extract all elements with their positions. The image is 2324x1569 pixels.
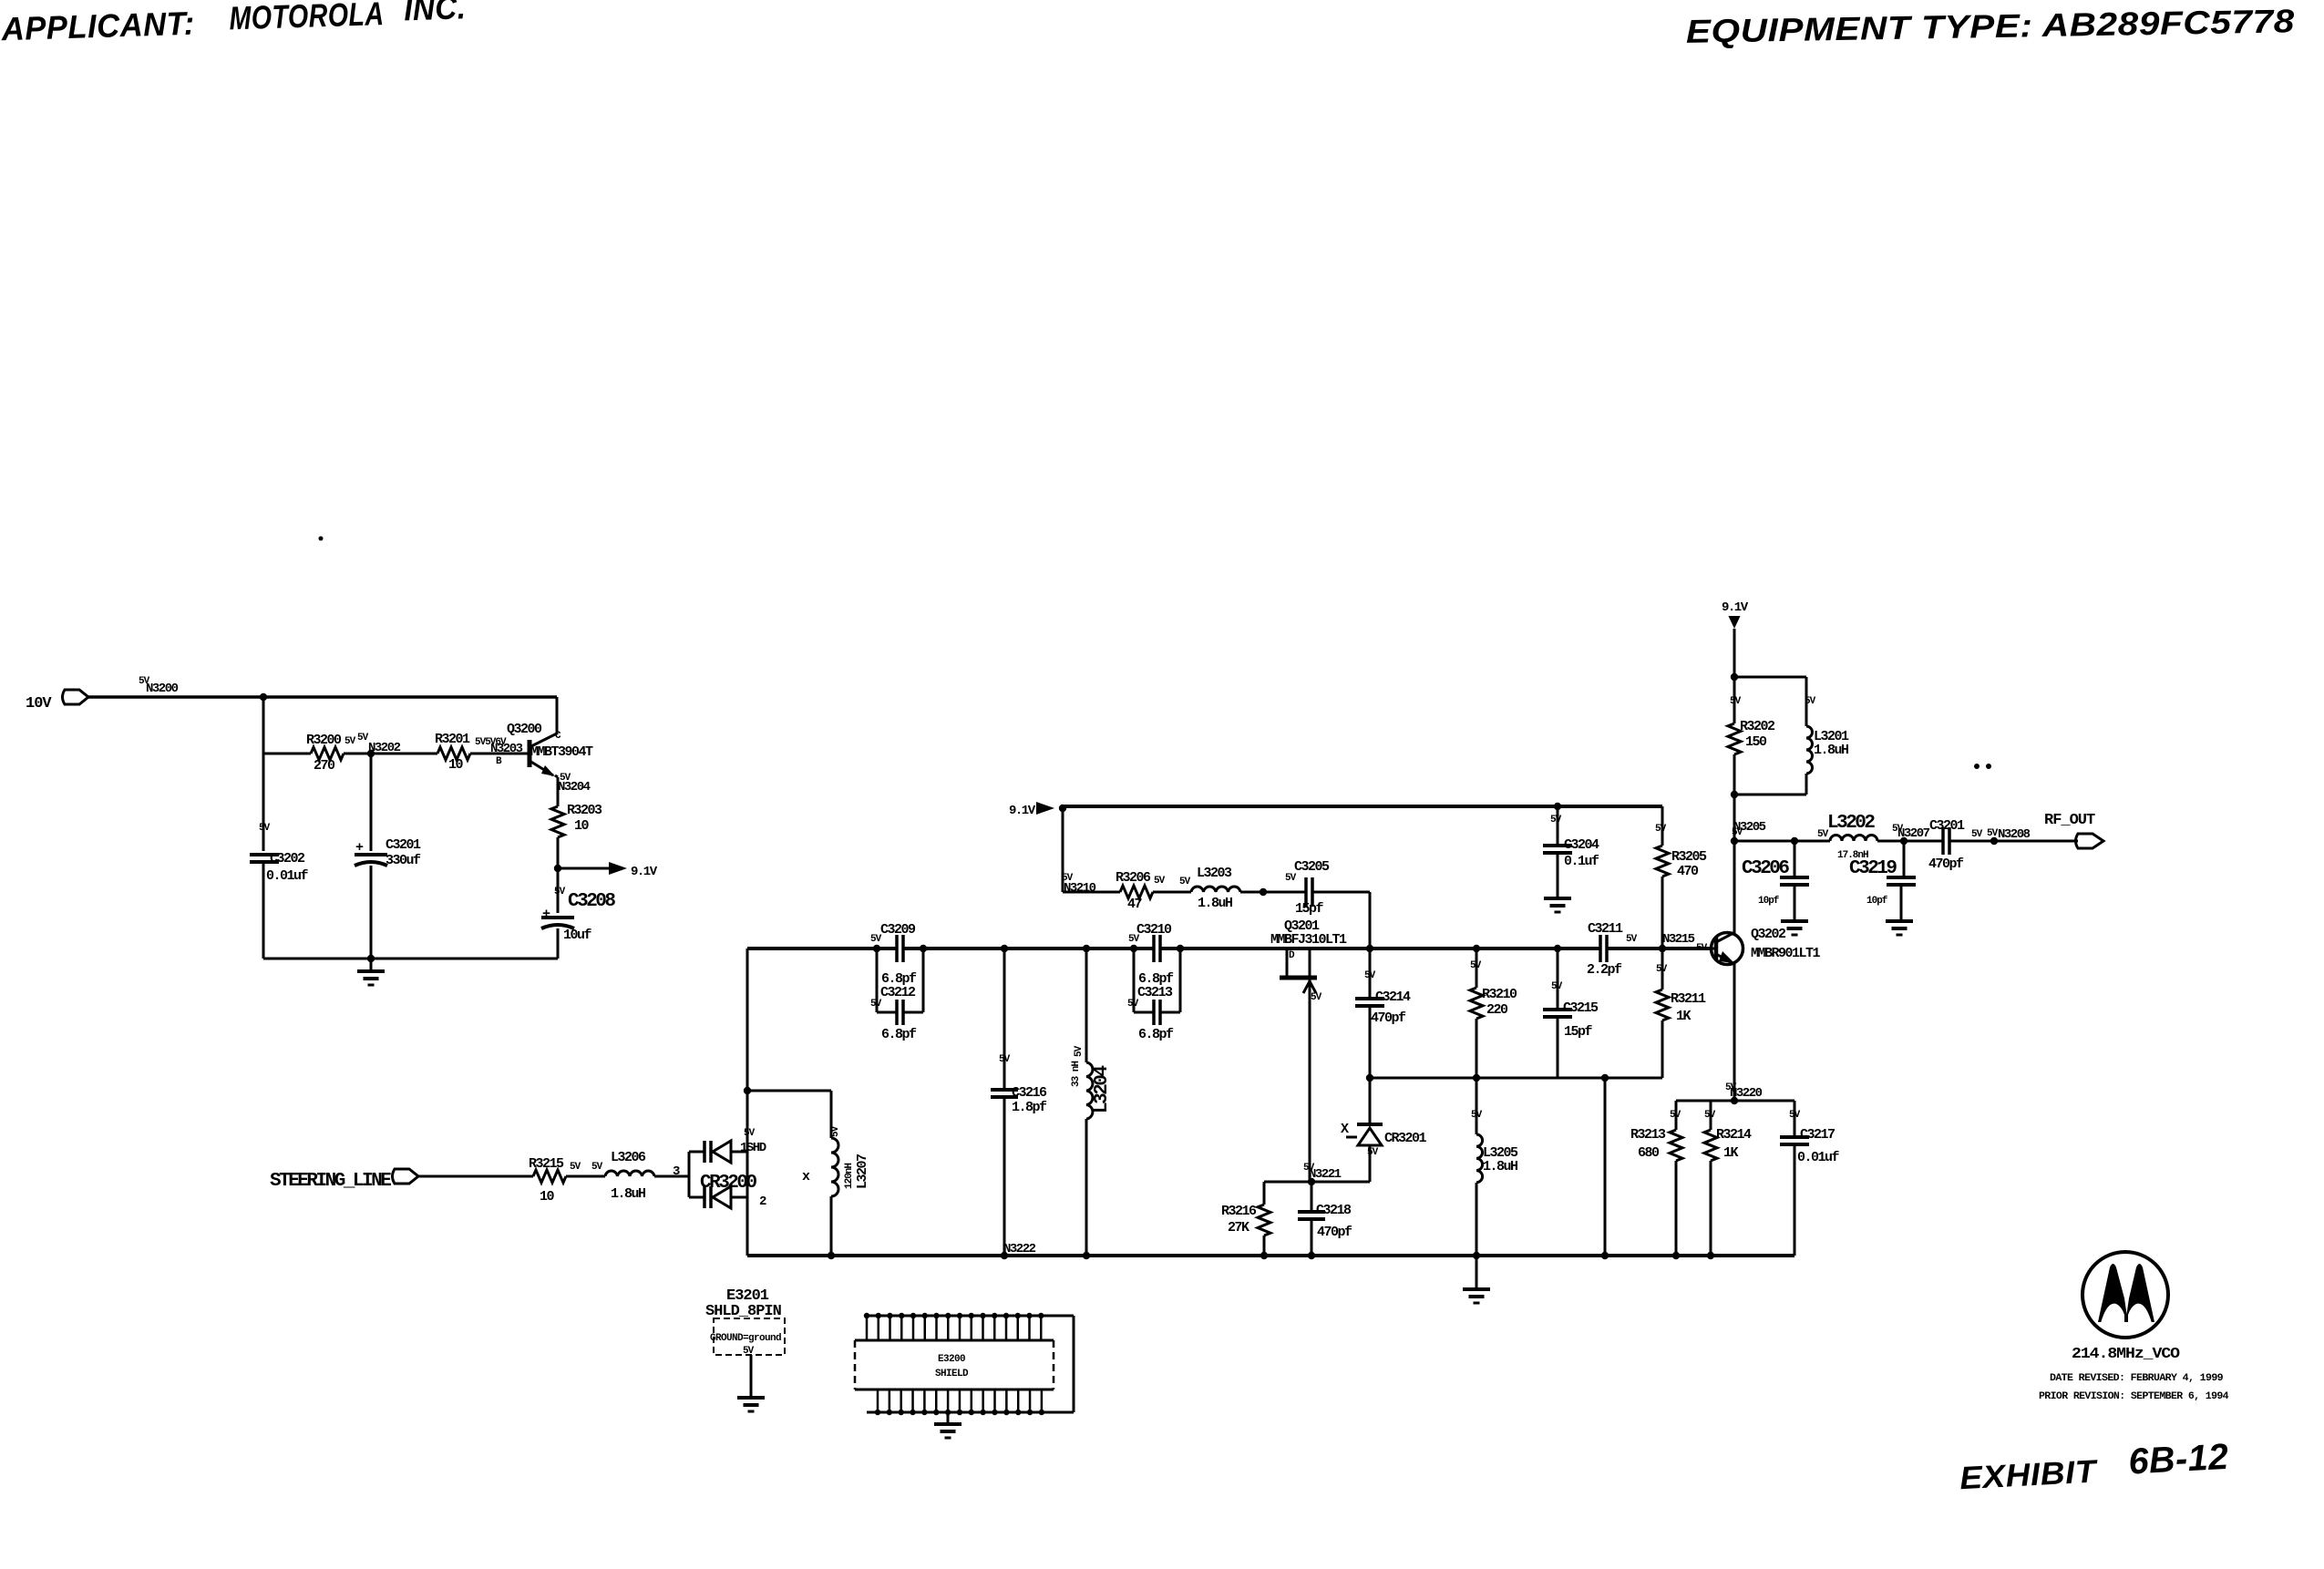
svg-text:5V: 5V [1303,1163,1315,1174]
supply 9.1V label top right [1722,600,1749,615]
svg-text:470pf: 470pf [1317,1225,1352,1240]
svg-text:5V: 5V [357,733,369,743]
inductor L3206 [605,1150,654,1202]
svg-text:5V: 5V [870,999,882,1010]
resistor R3210 220 [1470,949,1517,1078]
svg-text:L3203: L3203 [1197,866,1232,881]
component E3200 SHIELD [855,1313,1074,1415]
net N3220 label [1725,1082,1763,1101]
inductor L3204 33nH [1071,949,1113,1256]
svg-text:5V: 5V [1655,824,1667,835]
svg-text:10V: 10V [26,695,52,713]
ground C3219 [1886,921,1913,935]
arrow 9.1V supply down [1729,616,1741,629]
svg-text:R3210: R3210 [1482,987,1517,1002]
inductor L3202 [1827,813,1877,861]
handwritten equipment type header [1686,2,2296,50]
wire steering 1 [418,1175,533,1178]
svg-text:6B-12: 6B-12 [2127,1437,2229,1482]
svg-text:1.8uH: 1.8uH [1198,896,1232,911]
node bus right loop C3213 [1177,945,1184,952]
varactor CR3200 top half [689,1141,747,1163]
capacitor C3201 470pf series [1928,818,1983,872]
svg-text:MMBFJ310LT1: MMBFJ310LT1 [1270,932,1347,948]
output terminal RF_OUT [2044,812,2103,848]
svg-text:0.01uf: 0.01uf [1797,1150,1840,1165]
wire CR3200 to ground rail [746,1152,749,1256]
svg-text:C3211: C3211 [1588,921,1623,937]
ground E3200 [934,1412,961,1438]
svg-text:C3201: C3201 [386,837,421,853]
wire C3208 to bottom [557,928,560,959]
svg-text:1.8uH: 1.8uH [1814,743,1848,758]
svg-text:L3204: L3204 [1092,1066,1113,1113]
svg-text:9.1V: 9.1V [631,865,658,879]
svg-text:N3207: N3207 [1897,826,1930,841]
resistor R3201 [435,732,470,773]
svg-text:470: 470 [1677,864,1699,879]
svg-text:10: 10 [574,818,590,834]
svg-text:5V: 5V [1285,873,1297,884]
svg-text:R3213: R3213 [1630,1127,1666,1143]
wire top rail [1063,805,1662,808]
wire N3220 top line [1676,1100,1794,1102]
svg-text:5V: 5V [1987,828,1999,839]
handwritten applicant header [0,0,467,47]
wire N3202 vertical upper [370,754,373,851]
svg-text:5V: 5V [1656,964,1668,975]
svg-text:1.8uH: 1.8uH [1483,1159,1517,1174]
svg-text:9.1V: 9.1V [1009,804,1036,818]
resistor R3216 27K [1221,1182,1270,1256]
wire R3200 to N3202 [344,753,371,755]
svg-text:R3216: R3216 [1221,1204,1257,1219]
svg-text:1SHD: 1SHD [740,1141,766,1155]
capacitor C3214 470pf [1355,949,1411,1078]
svg-text:R3206: R3206 [1116,870,1151,886]
svg-text:5V: 5V [1704,1110,1716,1121]
svg-text:5V: 5V [1179,877,1191,887]
svg-text:EXHIBIT: EXHIBIT [1959,1453,2099,1496]
handwritten exhibit number [1959,1437,2230,1496]
inductor L3207 120nH [802,1091,870,1256]
capacitor C3206 10pf [1742,841,1809,921]
net N3203 label [475,737,523,767]
svg-text:R3202: R3202 [1740,719,1775,734]
svg-text:5V: 5V [870,934,882,945]
node rail L3204 [1083,1252,1090,1259]
node bus R3210 [1473,945,1480,952]
node rail R3214 [1707,1252,1714,1259]
svg-text:6.8pf: 6.8pf [1138,1027,1174,1042]
wire to 9.1V arrow [558,867,609,870]
node bus left loop C3213 [1130,945,1137,952]
svg-text:R3214: R3214 [1716,1127,1752,1143]
capacitor C3205 15pf series [1285,859,1330,917]
svg-text:0.1uf: 0.1uf [1564,854,1599,869]
svg-text:C3216: C3216 [1012,1085,1047,1101]
svg-text:L3207: L3207 [855,1154,870,1189]
node bus C3214 [1366,945,1373,952]
svg-text:C3218: C3218 [1316,1203,1352,1218]
svg-text:C3210: C3210 [1136,922,1172,938]
svg-text:STEERING_LINE: STEERING_LINE [270,1171,391,1192]
svg-text:33 nH: 33 nH [1071,1061,1082,1087]
svg-text:SHIELD: SHIELD [935,1369,969,1379]
svg-text:PRIOR REVISION: SEPTEMBER 6, 1: PRIOR REVISION: SEPTEMBER 6, 1994 [2039,1391,2229,1402]
svg-text:L3206: L3206 [611,1150,646,1165]
svg-text:Q3202: Q3202 [1751,927,1786,942]
resistor R3213 680 [1630,1101,1682,1256]
resistor R3203 [551,803,602,837]
svg-text:1.8pf: 1.8pf [1012,1100,1047,1115]
svg-text:270: 270 [314,758,335,774]
wire R3203 to 9.1V node [557,837,560,913]
supply 9.1V label mid [1009,804,1036,818]
inductor L3201 [1805,677,1849,795]
svg-text:N3221: N3221 [1309,1167,1342,1182]
svg-text:R3200: R3200 [306,733,342,748]
node C3205 junction [1260,888,1267,896]
node N3221 [1303,1163,1342,1185]
svg-text:10pf: 10pf [1758,896,1780,907]
net N3204 label [558,773,591,795]
svg-text:5V: 5V [344,736,356,747]
wire regulator bottom rail [263,958,558,960]
transistor Q3202 symbol [1662,932,1743,965]
svg-text:5V: 5V [744,1128,756,1139]
wire N3205 to C3206 tap [1734,840,1830,843]
svg-text:10: 10 [540,1189,555,1205]
node 9.1V feed junction [1059,805,1066,812]
node R3202 L3201 top [1731,673,1738,681]
wire regulator left vertical bottom [262,862,265,959]
parallel capacitor C3212 loop [870,949,923,1042]
svg-text:5V: 5V [1696,943,1708,954]
svg-text:5V: 5V [570,1162,581,1173]
component E3201 SHLD_8PIN [705,1287,785,1357]
wire L3207 top link [747,1090,831,1092]
svg-text:5V: 5V [1892,824,1904,835]
node bus right loop C3209 [920,945,927,952]
svg-text:27K: 27K [1228,1220,1249,1236]
node rail C3218 [1308,1252,1315,1259]
svg-text:5V: 5V [1551,981,1563,992]
svg-text:N3222: N3222 [1003,1242,1036,1256]
input terminal 10V [26,690,88,713]
node rail feedback [1601,1252,1609,1259]
svg-text:5V: 5V [1670,1110,1681,1121]
svg-text:15pf: 15pf [1295,901,1324,917]
wire Q3202 emitter down [1733,964,1736,1101]
svg-text:5V: 5V [1367,1147,1379,1158]
resistor R3206 47 [1116,870,1191,912]
capacitor C3215 15pf [1543,949,1599,1078]
varactor CR3201 [1341,1078,1427,1182]
transistor Q3201 MMBFJ310LT1 [1270,918,1347,1184]
wire main bus seg1 [747,947,897,950]
svg-text:5V: 5V [1730,696,1742,707]
wire gate feed corner down [1369,892,1372,949]
ground E3201 [737,1355,765,1411]
svg-text:1K: 1K [1676,1009,1692,1024]
svg-text:5V: 5V [1470,960,1482,971]
svg-text:47: 47 [1127,897,1142,912]
wire base row left [263,753,311,755]
wire 9.1V feed down [1062,808,1064,892]
svg-text:5V: 5V [1128,934,1140,945]
node R3202 L3201 bottom [1731,791,1738,798]
svg-text:C3201: C3201 [1929,818,1965,834]
arrow 9.1V feed [1036,802,1054,815]
svg-text:R3215: R3215 [529,1156,564,1172]
logo Motorola [2082,1252,2168,1338]
svg-text:220: 220 [1486,1002,1508,1018]
svg-text:5V: 5V [1154,876,1166,887]
svg-text:15pf: 15pf [1564,1024,1593,1040]
ground regulator [357,959,385,985]
title prior revision [2039,1391,2229,1402]
svg-text:R3211: R3211 [1671,991,1706,1007]
svg-text:5V: 5V [1074,1045,1085,1057]
title date revised [2050,1373,2223,1384]
node rail L3205 [1473,1252,1480,1259]
parallel capacitor C3213 loop [1127,949,1180,1042]
wire bottom rail N3222 [747,1254,1794,1257]
svg-text:150: 150 [1745,734,1767,750]
svg-text:R3205: R3205 [1671,849,1707,865]
node feedback R3210 [1473,1074,1480,1082]
wire collector feed Q3202 [1733,841,1736,934]
svg-text:E3200: E3200 [938,1354,965,1365]
svg-text:5V: 5V [1805,696,1816,707]
svg-text:C3206: C3206 [1742,858,1789,879]
node L3204 tap [1083,945,1090,952]
wire N3202 to R3201 [371,753,437,755]
wire steering 3 [654,1175,678,1178]
svg-text:5V: 5V [1971,829,1983,840]
svg-text:5V: 5V [743,1346,755,1357]
svg-text:C3214: C3214 [1375,990,1411,1005]
wire L3202 to N3207 [1877,840,1943,843]
svg-text:0.01uf: 0.01uf [266,868,309,884]
svg-text:C3219: C3219 [1849,858,1897,879]
input terminal STEERING_LINE [270,1169,418,1192]
node rail C3216 [1001,1252,1008,1259]
svg-text:C3204: C3204 [1564,837,1599,853]
svg-text:N3203: N3203 [490,742,523,756]
wire main bus seg4 [1607,947,1712,950]
title 214.8MHz_VCO [2072,1346,2180,1363]
wire CR3201 corner to N3221 [1264,1181,1370,1184]
svg-text:C3217: C3217 [1800,1127,1835,1143]
node junction at 10V rail [260,693,267,701]
node rail R3213 [1672,1252,1680,1259]
node N3202 [357,733,401,757]
svg-text:470pf: 470pf [1928,856,1964,872]
wire main bus seg2 [903,947,1154,950]
svg-text:MMBR901LT1: MMBR901LT1 [1751,946,1821,961]
svg-text:C3215: C3215 [1563,1000,1599,1016]
wire steering input to bracket [678,1175,689,1178]
net N3200 label [139,676,179,696]
svg-text:470pf: 470pf [1371,1010,1406,1026]
svg-text:DATE REVISED: FEBRUARY 4, 1999: DATE REVISED: FEBRUARY 4, 1999 [2050,1373,2223,1384]
inductor L3203 [1191,866,1240,911]
wire regulator left vertical top [262,697,265,851]
transistor Q3200 MMBT3904T [507,722,593,776]
capacitor C3219 10pf [1849,841,1916,921]
svg-text:9.1V: 9.1V [1722,600,1749,615]
output arrow 9.1V [609,862,658,879]
wire R3206 to L3203 [1153,891,1191,894]
svg-text:APPLICANT:: APPLICANT: [0,5,195,48]
svg-text:N3210: N3210 [1064,881,1096,896]
wire steering 2 [566,1175,605,1178]
wire supply vertical 1 [1733,629,1736,677]
node C3204 tap [1554,803,1561,810]
svg-text:RF_OUT: RF_OUT [2044,812,2095,829]
svg-text:120nH: 120nH [844,1164,855,1189]
svg-text:2: 2 [759,1195,766,1209]
wire regulator top [263,695,557,699]
svg-text:C3213: C3213 [1137,985,1173,1000]
svg-text:5V: 5V [1127,999,1139,1010]
svg-text:5V: 5V [1725,1082,1737,1093]
node bus left loop C3209 [873,945,880,952]
net N3210 label [1062,873,1096,896]
ground C3206 [1781,921,1808,935]
svg-text:N3215: N3215 [1662,932,1695,947]
svg-text:C3205: C3205 [1294,859,1330,875]
wire CR3200 bracket [688,1152,691,1197]
svg-text:6.8pf: 6.8pf [881,1027,917,1042]
wire 10V input [88,695,263,699]
wire supply vertical 2 [1733,795,1736,841]
node bus C3215 [1554,945,1561,952]
svg-text:C3212: C3212 [880,985,916,1000]
svg-text:214.8MHz_VCO: 214.8MHz_VCO [2072,1346,2180,1363]
node regulator ground junction [367,955,375,962]
svg-text:R3201: R3201 [435,732,470,747]
svg-text:5V: 5V [554,887,566,897]
resistor R3211 1K [1656,949,1706,1078]
node C3216 tap [1001,945,1008,952]
svg-text:2.2pf: 2.2pf [1587,962,1622,978]
resistor R3215 10 [529,1156,603,1205]
svg-text:5V: 5V [1364,970,1376,981]
svg-text:5V: 5V [1311,992,1322,1003]
wire C3205 to corner [1312,891,1370,894]
svg-text:5V: 5V [1471,1110,1483,1121]
svg-text:C3209: C3209 [880,922,916,938]
capacitor C3216 1.8pf [991,949,1047,1256]
svg-text:MMBT3904T: MMBT3904T [530,744,593,760]
node N3205 [1731,820,1766,845]
svg-text:INC.: INC. [404,0,467,27]
svg-text:CR3201: CR3201 [1384,1131,1427,1146]
node rail R3216 [1260,1252,1268,1259]
node feedback mid [1601,1074,1609,1082]
capacitor C3217 0.01uf [1780,1101,1840,1256]
node L3207 branch [744,1087,751,1094]
svg-text:N3208: N3208 [1998,827,2031,842]
svg-text:5V: 5V [1550,815,1562,826]
svg-text:GROUND=ground: GROUND=ground [710,1333,781,1344]
svg-text:10: 10 [448,757,464,773]
node N3220 [1731,1097,1738,1104]
node bus R3211 [1659,945,1666,952]
svg-text:10uf: 10uf [563,928,592,943]
svg-text:N3200: N3200 [146,682,179,696]
node C3206 tap [1791,837,1798,845]
transistor Q3202 MMBR901LT1 labels [1751,927,1821,961]
svg-text:L3202: L3202 [1827,813,1875,834]
ground L3205 below rail [1463,1256,1490,1303]
net N3222 label [1003,1242,1036,1256]
svg-text:C3208: C3208 [568,891,615,912]
resistor R3202 [1728,677,1775,795]
capacitor C3208 10uf [541,887,615,943]
svg-text:5V: 5V [1789,1110,1801,1121]
varactor CR3200 labels [673,1128,766,1209]
svg-text:R3203: R3203 [567,803,602,818]
svg-text:5V: 5V [259,823,271,834]
wire collector to top rail [556,697,559,734]
label 5V before L3202 [1817,829,1829,840]
wire feedback node line [1370,1077,1662,1080]
svg-text:330uf: 330uf [386,853,421,868]
wire emitter down [555,775,558,806]
wire N3202 vertical lower [370,866,373,959]
wire N3210 to R3206 [1063,891,1120,894]
resistor R3205 470 [1655,806,1707,949]
svg-text:5V: 5V [1626,934,1638,945]
node feedback C3214 [1366,1074,1373,1082]
svg-text:N3205: N3205 [1733,820,1766,835]
wire feedback to rail [1604,1078,1607,1256]
svg-text:MOTOROLA: MOTOROLA [229,0,385,36]
ground C3204 [1544,898,1571,912]
svg-text:10pf: 10pf [1866,896,1888,907]
svg-text:5V: 5V [999,1054,1011,1065]
svg-text:Q3200: Q3200 [507,722,542,737]
wire R3202-L3201 bottom link [1734,794,1806,796]
svg-text:1.8uH: 1.8uH [611,1186,645,1202]
svg-text:C3202: C3202 [270,851,305,867]
resistor R3214 1K [1704,1101,1752,1256]
wire L3203 to C3205 [1240,891,1306,894]
capacitor C3204 0.1uf [1543,806,1599,898]
wire R3201 to base [470,753,530,755]
capacitor C3210 6.8pf series [1128,922,1172,962]
node N3208 [1987,827,2031,845]
svg-text:680: 680 [1638,1145,1660,1161]
wire R3202-L3201 top link [1734,676,1806,679]
svg-text:5V: 5V [591,1162,603,1173]
capacitor C3202 [250,823,309,884]
stray scan marks [319,537,1992,770]
wire tank left vertical [746,949,749,1154]
capacitor C3209 6.8pf series [870,922,916,962]
node rail L3207 [828,1252,835,1259]
svg-text:N3204: N3204 [558,780,591,795]
inductor L3205 [1471,1078,1518,1256]
capacitor C3211 2.2pf series [1587,921,1638,978]
varactor CR3200 bottom half [689,1186,747,1208]
node N3207 [1892,824,1930,845]
capacitor C3201 330uf [355,837,421,868]
